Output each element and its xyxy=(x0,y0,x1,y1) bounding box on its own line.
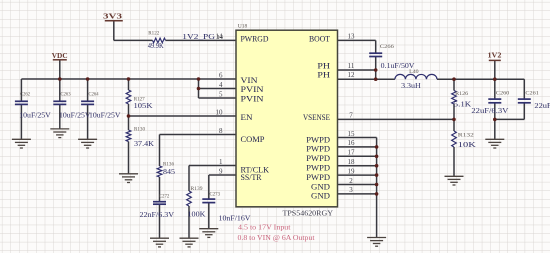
svg-text:5.1K: 5.1K xyxy=(454,101,472,109)
wire VDC stem xyxy=(59,61,61,80)
svg-text:5: 5 xyxy=(219,90,223,98)
wire R130 to ground xyxy=(128,142,130,174)
node C260/C261 xyxy=(493,118,497,122)
ground under C272 xyxy=(150,238,169,247)
node C264 xyxy=(86,77,90,81)
wire C262 top lead xyxy=(20,79,22,101)
wire PWPD pin17 xyxy=(338,155,377,157)
ground under C264 xyxy=(78,139,97,148)
node rail R126 xyxy=(452,77,456,81)
svg-text:C272: C272 xyxy=(159,194,170,200)
wire C272 to ground xyxy=(159,204,161,238)
svg-text:3: 3 xyxy=(349,186,353,194)
svg-text:15: 15 xyxy=(348,130,356,138)
wire PVIN branch vertical xyxy=(198,79,200,98)
resistor R130 xyxy=(126,130,131,142)
wire C260 bottom lead xyxy=(494,103,496,139)
wire PWPD/GND collector to ground xyxy=(376,138,378,238)
ground under R139 xyxy=(180,238,199,247)
wire SS/TR pin9 xyxy=(209,174,236,176)
svg-text:PH: PH xyxy=(317,62,330,71)
svg-text:VDC: VDC xyxy=(52,52,68,60)
wire PWPD pin18 xyxy=(338,165,377,167)
svg-text:VIN: VIN xyxy=(241,76,258,85)
svg-text:10uF/25V: 10uF/25V xyxy=(89,111,121,119)
svg-text:1V2_PG: 1V2_PG xyxy=(182,33,215,41)
svg-text:6: 6 xyxy=(219,71,223,79)
node pin2 xyxy=(375,183,379,187)
power 3V3 xyxy=(105,20,123,23)
svg-text:PWPD: PWPD xyxy=(306,154,330,163)
svg-text:13: 13 xyxy=(348,32,356,40)
svg-text:10uF/25V: 10uF/25V xyxy=(59,111,91,119)
node pin16 xyxy=(375,145,379,149)
svg-text:C261: C261 xyxy=(525,91,539,97)
svg-text:10K: 10K xyxy=(458,141,476,149)
wire C263 bottom lead xyxy=(59,105,61,129)
capacitor C263 xyxy=(53,101,66,104)
wire 1V2 stem xyxy=(494,61,496,79)
capacitor C260 xyxy=(488,99,501,103)
wire PWPD pin16 xyxy=(338,146,377,148)
svg-text:3V3: 3V3 xyxy=(103,13,123,21)
svg-text:BOOT: BOOT xyxy=(309,35,330,44)
svg-text:10uF/25V: 10uF/25V xyxy=(19,111,51,119)
svg-text:EN: EN xyxy=(241,113,253,122)
svg-text:16: 16 xyxy=(348,139,356,147)
svg-text:R139: R139 xyxy=(191,186,203,192)
wire PVIN pin4 xyxy=(199,88,237,90)
wire 3V3 stem xyxy=(113,22,115,41)
wire GND pin3 xyxy=(338,193,377,195)
wire PWPD pin15 xyxy=(338,137,377,139)
svg-text:U18: U18 xyxy=(238,24,248,30)
wire rail to R126 xyxy=(453,79,455,90)
wire bus to R127 xyxy=(128,79,130,90)
wire C260 top lead xyxy=(494,79,496,99)
svg-text:49.9K: 49.9K xyxy=(148,42,164,50)
svg-text:PVIN: PVIN xyxy=(241,85,264,94)
svg-text:11: 11 xyxy=(348,62,355,70)
svg-text:4: 4 xyxy=(219,81,223,89)
resistor R132 xyxy=(452,131,457,147)
wire pin1 to R139 xyxy=(188,166,190,192)
ground under C262 xyxy=(12,139,31,148)
power 1V2 xyxy=(489,59,501,62)
svg-text:100K: 100K xyxy=(188,210,206,218)
svg-text:10nF/16V: 10nF/16V xyxy=(219,215,251,223)
wire RT/CLK pin1 xyxy=(189,165,236,167)
svg-text:17: 17 xyxy=(348,149,356,157)
wire C261 top lead xyxy=(523,79,525,99)
node EN/R127/R130 xyxy=(127,114,131,118)
svg-text:L40: L40 xyxy=(409,69,419,75)
svg-text:PWPD: PWPD xyxy=(306,145,330,154)
resistor R127 xyxy=(126,90,131,104)
svg-text:R126: R126 xyxy=(455,91,468,97)
svg-text:PH: PH xyxy=(317,70,330,79)
wire BOOT to C266 xyxy=(375,40,377,53)
svg-text:PWPD: PWPD xyxy=(306,164,330,173)
svg-text:22nF/6.3V: 22nF/6.3V xyxy=(140,211,175,219)
svg-text:PWPD: PWPD xyxy=(306,136,330,145)
svg-text:TPS54620RGY: TPS54620RGY xyxy=(283,211,334,218)
node pin3 xyxy=(375,192,379,196)
svg-text:1V2: 1V2 xyxy=(488,52,503,60)
wire R139 to ground xyxy=(188,206,190,238)
wire COMP to R136 xyxy=(159,135,161,167)
svg-text:845: 845 xyxy=(163,168,176,176)
wire L40 to 1V2 rail xyxy=(437,78,524,80)
svg-text:GND: GND xyxy=(311,182,330,191)
wire pin9 to C273 xyxy=(208,175,210,199)
svg-text:2: 2 xyxy=(349,177,353,185)
capacitor C272 xyxy=(153,202,166,205)
svg-text:VSENSE: VSENSE xyxy=(303,113,330,122)
svg-text:8: 8 xyxy=(219,127,223,135)
wire VDC input bus / VIN net xyxy=(21,78,236,80)
node PVIN4 xyxy=(197,87,201,91)
resistor R126 xyxy=(452,91,457,105)
node pin18 xyxy=(375,164,379,168)
svg-text:4.5 to 17V Input: 4.5 to 17V Input xyxy=(238,223,291,232)
svg-text:R122: R122 xyxy=(148,30,159,36)
wire R127 to EN xyxy=(128,104,130,116)
svg-text:22uF/6.3V: 22uF/6.3V xyxy=(471,107,508,115)
svg-text:7: 7 xyxy=(349,112,353,120)
svg-text:R132: R132 xyxy=(458,133,474,139)
node VDC/C263 xyxy=(58,77,62,81)
node VSENSE divider xyxy=(452,118,456,122)
node pin17 xyxy=(375,155,379,159)
wire C262 bottom lead xyxy=(20,105,22,140)
wire 1V2_PG net to pin14 xyxy=(166,39,237,41)
wire C261 bottom lead xyxy=(523,103,525,120)
wire PWPD pin19 xyxy=(338,174,377,176)
svg-text:R136: R136 xyxy=(163,161,174,167)
wire BOOT pin13 xyxy=(338,39,376,41)
wire PVIN pin5 xyxy=(199,97,237,99)
svg-text:14: 14 xyxy=(217,34,224,41)
wire VSENSE pin7 xyxy=(338,118,455,120)
wire COMP pin8 xyxy=(160,134,237,136)
svg-text:PVIN: PVIN xyxy=(241,95,264,104)
wire R136 to C272 xyxy=(159,177,161,202)
wire R126 to VSENSE node xyxy=(453,104,455,119)
node PH pin12 xyxy=(374,77,378,81)
svg-text:COMP: COMP xyxy=(241,135,266,144)
wire C263 top lead xyxy=(59,79,61,101)
wire PH pin11 xyxy=(338,69,376,71)
resistor R139 xyxy=(187,191,192,206)
wire C273 to ground xyxy=(208,203,210,229)
capacitor C264 xyxy=(81,101,94,104)
wire EN pin10 xyxy=(129,115,237,117)
node PH pin11 xyxy=(374,68,378,72)
wire R132 to ground xyxy=(453,147,455,176)
ground under C260 xyxy=(485,139,504,148)
svg-text:0.8 to VIN @ 6A Output: 0.8 to VIN @ 6A Output xyxy=(238,233,316,242)
inductor L40 xyxy=(395,74,437,79)
ground under C263 xyxy=(50,129,69,138)
capacitor C273 xyxy=(202,199,215,203)
svg-text:22uF/6.3V: 22uF/6.3V xyxy=(534,102,550,110)
ground under R130 xyxy=(119,174,138,183)
svg-text:PWPD: PWPD xyxy=(306,173,330,182)
capacitor C266 xyxy=(369,53,382,56)
node PVIN branch xyxy=(197,77,201,81)
svg-text:SS/TR: SS/TR xyxy=(241,173,263,182)
svg-text:R130: R130 xyxy=(134,127,145,133)
wire C264 bottom lead xyxy=(87,105,89,140)
wire C264 top lead xyxy=(87,79,89,101)
svg-text:12: 12 xyxy=(348,71,356,79)
svg-text:C263: C263 xyxy=(61,92,71,98)
svg-text:19: 19 xyxy=(348,167,356,175)
wire VSENSE node to R132 xyxy=(453,119,455,131)
svg-text:C266: C266 xyxy=(380,44,394,50)
node rail 1V2/C260 xyxy=(493,77,497,81)
wire EN to R130 xyxy=(128,116,130,130)
ground under GND pins xyxy=(367,238,386,247)
svg-text:C264: C264 xyxy=(89,92,99,98)
wire C266 to PH xyxy=(375,57,377,80)
svg-text:105K: 105K xyxy=(134,102,153,110)
wire 3V3 to R122 xyxy=(114,39,153,41)
svg-text:3.3uH: 3.3uH xyxy=(401,82,421,90)
capacitor C262 xyxy=(15,101,28,104)
resistor R122 xyxy=(153,38,166,43)
svg-text:GND: GND xyxy=(311,192,330,201)
svg-text:PWRGD: PWRGD xyxy=(241,35,269,44)
svg-text:9: 9 xyxy=(219,167,223,175)
node pin19 xyxy=(375,173,379,177)
svg-text:18: 18 xyxy=(348,158,356,166)
wire C261 join C260 xyxy=(495,118,525,120)
svg-text:1: 1 xyxy=(219,158,223,166)
capacitor C261 xyxy=(518,99,531,103)
wire PH pin12 to L40 xyxy=(338,78,395,80)
svg-text:C262: C262 xyxy=(20,92,30,98)
node R127 top xyxy=(127,77,131,81)
wire GND pin2 xyxy=(338,184,377,186)
svg-text:10: 10 xyxy=(216,108,224,116)
ground under R132 xyxy=(445,176,464,185)
ground under C273 xyxy=(199,229,218,238)
power VDC xyxy=(53,59,67,62)
resistor R136 xyxy=(157,166,162,177)
svg-text:C260: C260 xyxy=(496,91,510,97)
op-amp U18 TPS54620RGY body xyxy=(236,30,338,207)
svg-text:37.4K: 37.4K xyxy=(134,140,154,148)
svg-text:C273: C273 xyxy=(210,191,221,197)
